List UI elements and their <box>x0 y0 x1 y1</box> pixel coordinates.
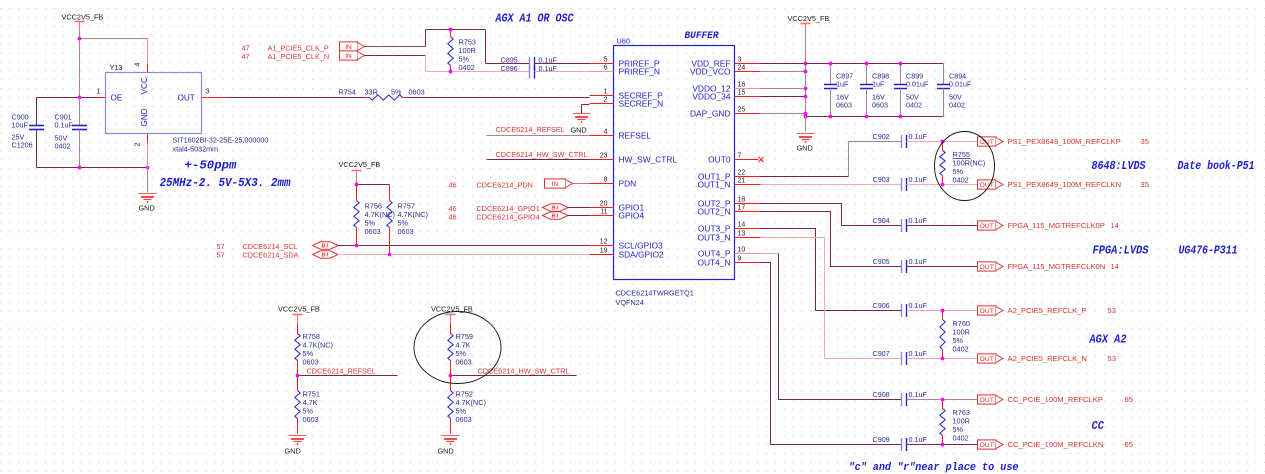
svg-text:1: 1 <box>604 89 608 96</box>
wire <box>535 63 590 65</box>
svg-text:CC: CC <box>1092 419 1105 433</box>
svg-text:GND: GND <box>571 126 587 135</box>
capacitor C898 <box>860 64 889 117</box>
port BI CDCE6214_SDA <box>313 251 339 259</box>
comment text 8648:LVDS <box>1092 159 1147 173</box>
svg-text:CDCE6214_GPIO4: CDCE6214_GPIO4 <box>477 213 540 222</box>
node <box>804 62 808 66</box>
svg-text:OUT3_N: OUT3_N <box>697 232 730 242</box>
resistor R754 <box>339 88 425 101</box>
op-amp U60 buffer CDCE6214 <box>614 37 735 280</box>
wire <box>425 56 427 72</box>
node <box>804 95 808 99</box>
resistor R755 <box>940 140 986 187</box>
svg-text:10: 10 <box>738 247 746 254</box>
wire <box>79 98 81 126</box>
svg-text:9: 9 <box>738 256 742 263</box>
port OUT PS1_PEX8649_100M_REFCLKP <box>978 137 1004 146</box>
wire <box>907 141 978 143</box>
svg-text:35: 35 <box>1141 137 1149 146</box>
svg-text:FPGA:LVDS: FPGA:LVDS <box>1093 244 1150 258</box>
svg-text:3: 3 <box>738 57 742 64</box>
svg-text:2: 2 <box>604 97 608 104</box>
wire <box>907 310 978 312</box>
svg-text:0402: 0402 <box>55 142 71 151</box>
svg-text:CDCE6214_REFSEL: CDCE6214_REFSEL <box>307 367 376 376</box>
svg-text:53: 53 <box>1108 354 1116 363</box>
svg-text:21: 21 <box>738 178 746 185</box>
svg-text:C902: C902 <box>873 132 890 141</box>
net label CC_PCIE_100M_REFCLKN <box>1008 440 1133 449</box>
node <box>296 374 300 378</box>
comment text Date book-P51 <box>1178 159 1255 173</box>
capacitor C909 <box>873 435 928 451</box>
svg-text:BI: BI <box>552 214 560 220</box>
node <box>804 112 808 116</box>
svg-text:xtal4-5032mm: xtal4-5032mm <box>173 145 219 154</box>
svg-text:GND: GND <box>438 447 454 456</box>
node <box>829 62 833 66</box>
comment text CC <box>1092 419 1105 433</box>
svg-text:5: 5 <box>604 57 608 64</box>
svg-text:24: 24 <box>738 65 746 72</box>
svg-text:0402: 0402 <box>953 345 969 354</box>
svg-text:R754: R754 <box>339 88 356 97</box>
svg-text:A2_PCIE5_REFCLK_N: A2_PCIE5_REFCLK_N <box>1008 354 1087 363</box>
svg-text:CDCE6214_SDA: CDCE6214_SDA <box>243 251 299 260</box>
svg-text:5%: 5% <box>391 88 402 97</box>
svg-text:0402: 0402 <box>953 176 969 185</box>
wire <box>907 184 978 186</box>
net label CDCE6214_GPIO4 <box>449 213 540 222</box>
svg-text:C907: C907 <box>873 349 890 358</box>
svg-text:DAP_GND: DAP_GND <box>690 108 731 118</box>
svg-text:0.1uF: 0.1uF <box>909 301 928 310</box>
svg-text:IN: IN <box>345 53 352 60</box>
wire <box>761 113 806 115</box>
capacitor C903 <box>873 175 928 191</box>
node <box>804 70 808 74</box>
ground (oscillator) <box>139 194 157 213</box>
wire <box>338 245 590 247</box>
power symbol VCC2V5_FB (R759) <box>431 305 473 332</box>
svg-text:GND: GND <box>285 447 301 456</box>
wire <box>228 97 365 99</box>
svg-text:CDCE6214TWRGETQ1: CDCE6214TWRGETQ1 <box>616 289 694 298</box>
svg-text:16: 16 <box>738 82 746 89</box>
resistor R751 <box>295 376 320 434</box>
port OUT FPGA_115_MGTREFCLK0N <box>978 262 1004 271</box>
svg-text:46: 46 <box>449 213 457 222</box>
svg-text:PS1_PEX8649_100M_REFCLKN: PS1_PEX8649_100M_REFCLKN <box>1008 180 1122 189</box>
resistor R752 <box>448 376 486 434</box>
svg-text:FPGA_115_MGTREFCLK0P: FPGA_115_MGTREFCLK0P <box>1008 221 1105 230</box>
comment text BUFFER <box>685 30 719 41</box>
svg-text:0.1uF: 0.1uF <box>55 121 74 130</box>
port OUT A2_PCIE5_REFCLK_N <box>978 354 1004 363</box>
svg-text:OUT1_N: OUT1_N <box>697 179 730 189</box>
node <box>899 62 903 66</box>
net label CDCE6214_SCL <box>217 242 298 251</box>
net label PS1_PEX8649_100M_REFCLKN <box>1008 180 1149 189</box>
port OUT FPGA_115_MGTREFCLK0P <box>978 221 1004 230</box>
capacitor C904 <box>873 216 928 232</box>
wire <box>806 63 944 65</box>
net label PS1_PEX8649_100M_REFCLKP <box>1008 137 1149 146</box>
node <box>78 96 82 100</box>
svg-text:10uF: 10uF <box>12 121 29 130</box>
svg-text:65: 65 <box>1125 440 1133 449</box>
svg-text:6: 6 <box>604 65 608 72</box>
comment text FPGA:LVDS <box>1093 244 1150 258</box>
svg-text:8: 8 <box>604 177 608 184</box>
svg-text:VDDO_34: VDDO_34 <box>692 91 731 101</box>
svg-text:U60: U60 <box>617 37 630 46</box>
svg-text:"c" and "r"near place to use: "c" and "r"near place to use <box>849 462 1019 474</box>
svg-text:CDCE6214_HW_SW_CTRL: CDCE6214_HW_SW_CTRL <box>496 150 588 159</box>
svg-text:REFSEL: REFSEL <box>619 130 652 140</box>
resistor R753 <box>448 30 476 73</box>
power symbol VCC2V5_FB (oscillator) <box>62 13 104 39</box>
left pin stubs and numbers <box>590 57 614 255</box>
svg-text:53: 53 <box>1108 306 1116 315</box>
wire <box>805 64 807 117</box>
svg-text:25MHz-2. 5V-5X3. 2mm: 25MHz-2. 5V-5X3. 2mm <box>160 176 292 190</box>
svg-text:CDCE6214_PDN: CDCE6214_PDN <box>477 181 533 190</box>
wire <box>761 229 902 311</box>
svg-text:14: 14 <box>1111 221 1119 230</box>
svg-text:OUT: OUT <box>980 308 994 315</box>
wire <box>805 117 807 132</box>
wire <box>147 39 149 64</box>
svg-text:0.1uF: 0.1uF <box>909 216 928 225</box>
svg-text:VCC2V5_FB: VCC2V5_FB <box>339 160 381 169</box>
svg-text:CDCE6214_HW_SW_CTRL: CDCE6214_HW_SW_CTRL <box>478 367 570 376</box>
svg-text:19: 19 <box>600 248 608 255</box>
svg-text:0402: 0402 <box>949 101 965 110</box>
wire <box>582 105 590 114</box>
ground (SECREF_N) <box>571 114 591 135</box>
comment text AGX A2 <box>1089 333 1127 347</box>
svg-text:BI: BI <box>322 244 330 250</box>
power symbol VCC2V5_FB (pullups) <box>339 160 381 185</box>
svg-text:SDA/GPIO2: SDA/GPIO2 <box>619 249 664 259</box>
svg-text:CC_PCIE_100M_REFCLKP: CC_PCIE_100M_REFCLKP <box>1008 395 1103 404</box>
resistor R758 <box>295 332 333 376</box>
svg-text:0603: 0603 <box>836 101 852 110</box>
svg-text:18: 18 <box>738 197 746 204</box>
wire <box>568 215 590 217</box>
net label CDCE6214_REFSEL <box>496 125 565 134</box>
comment text +-50ppm <box>185 159 238 173</box>
svg-text:14: 14 <box>1111 262 1119 271</box>
svg-text:0.1uF: 0.1uF <box>909 175 928 184</box>
pin 3 stub <box>202 97 228 99</box>
wire <box>79 39 81 98</box>
wire <box>761 88 806 90</box>
port IN CDCE6214_PDN <box>545 179 573 188</box>
svg-text:14: 14 <box>738 222 746 229</box>
pin 4 stub <box>147 64 149 73</box>
svg-text:VDD_VCO: VDD_VCO <box>690 66 731 76</box>
wire <box>761 63 806 65</box>
port OUT CC_PCIE_100M_REFCLKN <box>978 440 1004 449</box>
svg-text:BI: BI <box>322 253 330 259</box>
node <box>865 62 869 66</box>
svg-text:+-50ppm: +-50ppm <box>185 159 238 173</box>
comment text UG476-P311 <box>1179 244 1238 258</box>
svg-text:OUT2_N: OUT2_N <box>697 206 730 216</box>
svg-text:0603: 0603 <box>303 415 319 424</box>
capacitor C907 <box>873 349 928 365</box>
net label CDCE6214_REFSEL <box>307 367 376 376</box>
svg-text:0.1uF: 0.1uF <box>909 257 928 266</box>
svg-text:4: 4 <box>135 63 142 67</box>
wire <box>761 184 902 186</box>
net label CDCE6214_HW_SW_CTRL <box>478 367 570 376</box>
wire <box>80 38 148 40</box>
wire <box>486 30 530 64</box>
port OUT PS1_PEX8649_100M_REFCLKN <box>978 180 1004 189</box>
svg-text:23: 23 <box>600 153 608 160</box>
svg-text:0.1uF: 0.1uF <box>909 435 928 444</box>
svg-text:0402: 0402 <box>906 101 922 110</box>
svg-text:VQFN24: VQFN24 <box>616 298 644 307</box>
svg-text:0603: 0603 <box>365 227 381 236</box>
pin 2 stub <box>147 134 149 143</box>
node <box>804 115 808 119</box>
resistor R756 <box>354 185 395 246</box>
svg-text:C908: C908 <box>873 390 890 399</box>
net label CDCE6214_PDN <box>449 181 533 190</box>
svg-text:0603: 0603 <box>456 415 472 424</box>
node <box>449 28 453 32</box>
wire <box>37 167 148 169</box>
svg-text:C906: C906 <box>873 301 890 310</box>
svg-text:0603: 0603 <box>456 358 472 367</box>
svg-text:CC_PCIE_100M_REFCLKN: CC_PCIE_100M_REFCLKN <box>1008 440 1104 449</box>
svg-text:20: 20 <box>600 201 608 208</box>
svg-text:VCC: VCC <box>140 77 149 94</box>
svg-text:35: 35 <box>1141 180 1149 189</box>
node <box>449 70 453 74</box>
power symbol VCC2V5_FB (R758) <box>278 305 320 332</box>
part number text <box>616 289 694 308</box>
svg-text:OUT: OUT <box>980 264 994 271</box>
wire <box>761 204 902 226</box>
svg-text:C905: C905 <box>873 257 890 266</box>
net label A2_PCIE5_REFCLK_N <box>1008 354 1116 363</box>
svg-text:A1_PCIE5_CLK_N: A1_PCIE5_CLK_N <box>268 52 330 61</box>
svg-text:Y13: Y13 <box>110 63 123 72</box>
net label A1_PCIE5_CLK_N <box>242 52 330 61</box>
ground (R752) <box>438 436 460 456</box>
svg-text:VCC2V5_FB: VCC2V5_FB <box>278 305 320 314</box>
capacitor C895 <box>501 56 558 71</box>
wire <box>37 98 97 126</box>
svg-text:0603: 0603 <box>398 227 414 236</box>
comment text c and r note <box>849 462 1019 474</box>
svg-text:0.01uF: 0.01uF <box>949 80 972 89</box>
svg-text:BUFFER: BUFFER <box>685 30 719 41</box>
svg-text:GND: GND <box>139 204 155 213</box>
oscillator Y13 <box>97 63 210 147</box>
svg-text:VCC2V5_FB: VCC2V5_FB <box>788 14 830 23</box>
svg-text:Date book-P51: Date book-P51 <box>1178 159 1255 173</box>
svg-text:OUT0: OUT0 <box>708 154 731 164</box>
wire <box>408 97 590 99</box>
node <box>804 87 808 91</box>
wire <box>365 46 426 48</box>
wire <box>426 30 486 47</box>
svg-text:0402: 0402 <box>459 63 475 72</box>
svg-text:0402: 0402 <box>953 434 969 443</box>
svg-text:C909: C909 <box>873 435 890 444</box>
port BI CDCE6214_GPIO4 <box>543 212 569 220</box>
svg-text:4: 4 <box>604 129 608 136</box>
ground (decoupling bank) <box>797 134 815 153</box>
svg-text:0603: 0603 <box>303 358 319 367</box>
port OUT CC_PCIE_100M_REFCLKP <box>978 395 1004 404</box>
net label CDCE6214_SDA <box>217 251 299 260</box>
svg-text:IN: IN <box>552 181 559 188</box>
svg-text:2: 2 <box>135 143 142 147</box>
wire <box>907 444 978 446</box>
annotation ellipse around R755 <box>935 132 995 201</box>
capacitor C897 <box>824 64 853 117</box>
svg-text:GND: GND <box>797 144 813 153</box>
capacitor C896 <box>501 64 558 79</box>
net label CC_PCIE_100M_REFCLKP <box>1008 395 1133 404</box>
svg-text:FPGA_115_MGTREFCLK0N: FPGA_115_MGTREFCLK0N <box>1008 262 1106 271</box>
svg-text:47: 47 <box>242 52 250 61</box>
port BI CDCE6214_GPIO1 <box>543 204 569 212</box>
svg-text:OUT: OUT <box>980 182 994 189</box>
svg-text:25: 25 <box>738 107 746 114</box>
wire <box>806 116 944 118</box>
svg-text:8648:LVDS: 8648:LVDS <box>1092 159 1147 173</box>
comment text AGX A1 OR OSC <box>495 13 574 26</box>
comment text 25MHz <box>160 176 292 190</box>
capacitor C906 <box>873 301 928 317</box>
svg-text:1uF: 1uF <box>836 80 849 89</box>
capacitor C901 <box>55 113 88 168</box>
net label CDCE6214_HW_SW_CTRL <box>496 150 588 159</box>
port IN A1_PCIE5_CLK_N <box>340 51 365 60</box>
svg-text:12: 12 <box>600 239 608 246</box>
svg-text:1uF: 1uF <box>872 80 885 89</box>
node <box>355 244 359 248</box>
wire <box>907 399 978 401</box>
net label FPGA_115_MGTREFCLK0N <box>1008 262 1119 271</box>
svg-text:17: 17 <box>738 205 746 212</box>
svg-text:CDCE6214_REFSEL: CDCE6214_REFSEL <box>496 125 565 134</box>
svg-text:AGX A2: AGX A2 <box>1089 333 1127 347</box>
svg-text:UG476-P311: UG476-P311 <box>1179 244 1238 258</box>
svg-text:C896: C896 <box>501 64 518 73</box>
svg-text:OUT: OUT <box>178 94 195 103</box>
svg-text:OUT: OUT <box>980 356 994 363</box>
svg-text:OUT: OUT <box>980 442 994 449</box>
svg-text:11: 11 <box>600 209 607 216</box>
resistor R757 <box>387 185 428 255</box>
svg-text:VCC2V5_FB: VCC2V5_FB <box>62 13 104 22</box>
capacitor C900 <box>12 113 45 168</box>
svg-text:PRIREF_N: PRIREF_N <box>619 66 660 76</box>
node <box>388 253 392 257</box>
ground (R751) <box>285 436 307 456</box>
net label CDCE6214_GPIO1 <box>449 204 540 213</box>
svg-text:0.1uF: 0.1uF <box>909 390 928 399</box>
wire <box>761 142 902 177</box>
resistor R760 <box>940 309 970 361</box>
node <box>78 166 82 170</box>
svg-text:65: 65 <box>1125 395 1133 404</box>
svg-text:OUT: OUT <box>980 223 994 230</box>
svg-text:7: 7 <box>738 153 742 160</box>
wire <box>568 207 590 209</box>
power symbol VCC2V5_FB (decoupling) <box>788 14 830 64</box>
node <box>78 37 82 41</box>
svg-text:SIT1602BI-32-25E-25.000000: SIT1602BI-32-25E-25.000000 <box>173 136 269 145</box>
port OUT A2_PCIE5_REFCLK_P <box>978 306 1004 315</box>
capacitor C908 <box>873 390 928 406</box>
svg-text:OUT4_N: OUT4_N <box>697 257 730 267</box>
node <box>449 374 453 378</box>
pin 1 stub <box>97 97 106 99</box>
capacitor C894 <box>937 64 972 117</box>
capacitor C902 <box>873 132 928 148</box>
svg-text:AGX A1 OR OSC: AGX A1 OR OSC <box>495 13 574 26</box>
part number text <box>173 136 269 154</box>
svg-text:22: 22 <box>738 170 746 177</box>
svg-text:0.1uF: 0.1uF <box>909 349 928 358</box>
node <box>355 183 359 187</box>
wire <box>487 135 590 137</box>
net label FPGA_115_MGTREFCLK0P <box>1008 221 1119 230</box>
resistor R763 <box>940 398 970 447</box>
resistor R759 <box>448 332 473 376</box>
capacitor C899 <box>894 64 929 117</box>
svg-text:BI: BI <box>552 206 560 212</box>
capacitor C905 <box>873 257 928 273</box>
wire <box>487 159 590 161</box>
svg-text:C904: C904 <box>873 216 890 225</box>
wire <box>761 71 806 73</box>
wire <box>298 375 398 377</box>
net label A2_PCIE5_REFCLK_P <box>1008 306 1116 315</box>
svg-text:46: 46 <box>449 181 457 190</box>
wire <box>357 184 390 186</box>
wire <box>338 254 590 256</box>
svg-text:GPIO4: GPIO4 <box>619 210 645 220</box>
wire <box>907 358 978 360</box>
node <box>829 115 833 119</box>
svg-text:0.01uF: 0.01uF <box>906 80 929 89</box>
svg-text:PS1_PEX8649_100M_REFCLKP: PS1_PEX8649_100M_REFCLKP <box>1008 137 1121 146</box>
svg-text:C1206: C1206 <box>12 141 33 150</box>
svg-text:0.1uF: 0.1uF <box>909 132 928 141</box>
node <box>899 115 903 119</box>
wire <box>761 238 902 359</box>
wire <box>907 225 978 227</box>
svg-text:A2_PCIE5_REFCLK_P: A2_PCIE5_REFCLK_P <box>1008 306 1087 315</box>
right pin stubs and numbers <box>735 57 761 263</box>
wire <box>147 143 149 193</box>
annotation ellipse around R759 <box>414 312 501 384</box>
svg-text:OE: OE <box>111 94 123 103</box>
svg-text:PDN: PDN <box>619 178 637 188</box>
